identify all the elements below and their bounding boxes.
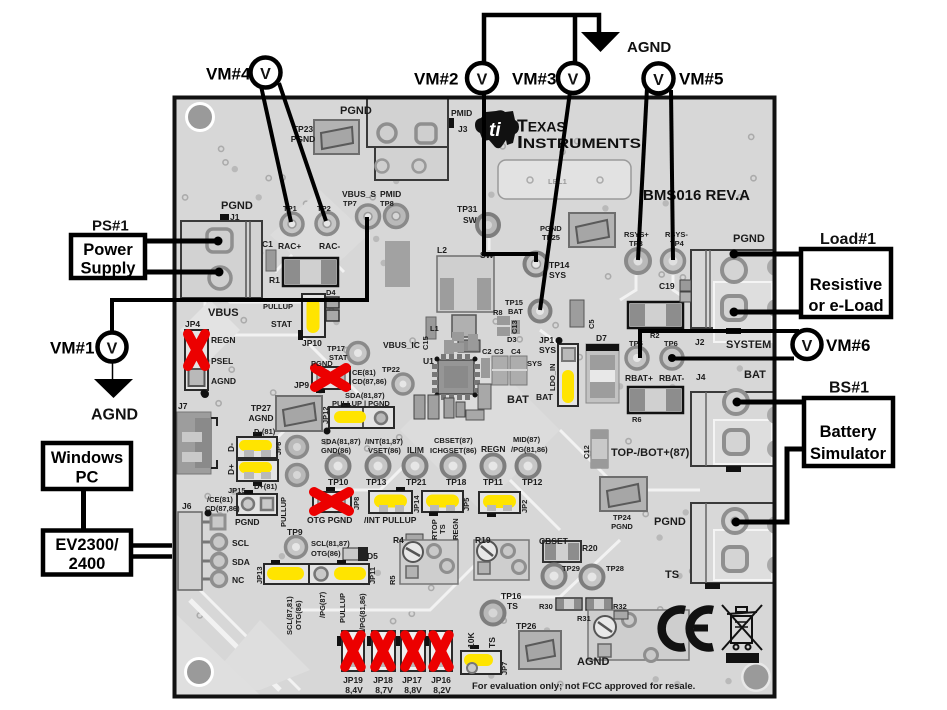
label area LBL1 <box>498 160 631 199</box>
connector J5 TS <box>691 503 776 589</box>
TP13 <box>367 455 390 478</box>
inductor L2 <box>437 256 494 312</box>
svg-text:TP13: TP13 <box>366 477 387 487</box>
svg-text:TS: TS <box>665 569 679 581</box>
svg-text:OTG PGND: OTG PGND <box>307 515 352 525</box>
red X JP16 <box>433 635 449 667</box>
wire PS to J1 pin2 <box>145 270 219 275</box>
TP11 <box>482 455 505 478</box>
jumper JP10 (vertical, yellow) <box>298 294 325 340</box>
svg-text:/PG(81,86): /PG(81,86) <box>358 593 367 630</box>
svg-text:TP14: TP14 <box>549 260 570 270</box>
cap C12 <box>591 430 608 468</box>
wire BS to J4 <box>737 400 805 405</box>
svg-text:INSTRUMENTS: INSTRUMENTS <box>517 132 641 152</box>
wire Load to J2 pin2 <box>734 310 801 315</box>
svg-text:J4: J4 <box>696 372 706 382</box>
jumper JP6 D- <box>237 432 277 458</box>
wire VM#3 stem <box>573 15 578 64</box>
wire VM#4 to TP1 <box>261 86 291 222</box>
WEEE symbol <box>722 605 762 650</box>
svg-text:Windows: Windows <box>51 449 123 467</box>
svg-text:JP18: JP18 <box>373 675 393 685</box>
svg-text:NC: NC <box>232 575 244 585</box>
svg-text:TS: TS <box>507 601 518 611</box>
svg-text:D7: D7 <box>596 333 607 343</box>
svg-text:D+(81): D+(81) <box>254 482 278 491</box>
pushbutton TP24 <box>600 477 647 511</box>
svg-text:VM#5: VM#5 <box>679 70 723 89</box>
TP5 <box>626 347 648 369</box>
svg-text:PULLUP: PULLUP <box>263 302 293 311</box>
svg-text:J7: J7 <box>178 401 188 411</box>
svg-text:Battery: Battery <box>820 423 878 441</box>
svg-text:/INT(81,87): /INT(81,87) <box>365 437 403 446</box>
red X JP19 <box>345 635 361 667</box>
svg-text:JP14: JP14 <box>412 495 421 513</box>
voltmeter VM#1 <box>98 333 127 362</box>
svg-text:CBSET: CBSET <box>539 536 569 546</box>
black bar <box>726 653 759 663</box>
svg-text:AGND: AGND <box>248 413 273 423</box>
inductor L1 + C15 cluster <box>426 315 480 354</box>
svg-text:Resistive: Resistive <box>810 276 882 294</box>
pushbutton TP27 <box>276 396 322 431</box>
jumper JP2 (yellow) <box>479 492 520 517</box>
svg-text:PULLUP: PULLUP <box>279 497 288 527</box>
board border redraw <box>175 98 775 697</box>
jumper JP3 D+ <box>237 460 278 486</box>
svg-text:D-: D- <box>226 443 236 452</box>
resistor R1 <box>283 258 338 286</box>
svg-text:VSET(86): VSET(86) <box>368 446 401 455</box>
svg-text:TP15: TP15 <box>505 298 523 307</box>
TP8 <box>385 205 408 228</box>
svg-text:D5: D5 <box>367 551 378 561</box>
cap C11 <box>478 384 491 409</box>
svg-text:AGND: AGND <box>91 407 138 424</box>
svg-text:PGND: PGND <box>611 522 633 531</box>
wire top bus to AGND <box>484 15 599 64</box>
svg-text:C3: C3 <box>494 347 504 356</box>
TP16 <box>482 602 505 625</box>
svg-text:PGND: PGND <box>311 359 333 368</box>
jumper JP9 (crossed) <box>312 367 350 393</box>
svg-text:JP16: JP16 <box>431 675 451 685</box>
svg-text:SDA(81,87): SDA(81,87) <box>321 437 361 446</box>
svg-text:J6: J6 <box>182 501 192 511</box>
svg-text:BAT: BAT <box>744 369 766 381</box>
svg-text:BMS016 REV.A: BMS016 REV.A <box>643 187 750 204</box>
svg-text:TP29: TP29 <box>562 564 580 573</box>
ground AGND left <box>94 379 133 398</box>
svg-text:TS: TS <box>487 637 497 648</box>
cap C5 <box>570 300 584 327</box>
TP21 <box>404 455 427 478</box>
jumpers JP19 JP18 JP17 JP16 (crossed, vertical) <box>342 631 452 671</box>
svg-text:TP22: TP22 <box>382 365 400 374</box>
connector J2 SYSTEM <box>691 250 776 342</box>
svg-text:TP16: TP16 <box>501 591 522 601</box>
svg-text:R31: R31 <box>577 614 591 623</box>
svg-text:PGND: PGND <box>654 516 686 528</box>
silkscreen labels <box>178 105 771 695</box>
svg-text:Simulator: Simulator <box>810 445 887 463</box>
svg-text:MID(87): MID(87) <box>513 435 541 444</box>
red X JP18 <box>375 635 391 667</box>
svg-text:JP4: JP4 <box>185 319 200 329</box>
svg-text:/PG(87): /PG(87) <box>318 591 327 618</box>
svg-text:VM#3: VM#3 <box>512 70 556 89</box>
svg-text:R20: R20 <box>582 543 598 553</box>
svg-text:L2: L2 <box>437 245 447 255</box>
svg-text:TP26: TP26 <box>516 621 537 631</box>
svg-text:BAT: BAT <box>508 307 523 316</box>
red X JP9 <box>315 368 346 387</box>
svg-text:CD(87,86): CD(87,86) <box>352 377 387 386</box>
connector J7 <box>177 390 217 474</box>
box EV2300/2400 <box>43 531 131 575</box>
svg-text:TP24: TP24 <box>613 513 632 522</box>
wire TP5 to VM#6 <box>640 331 799 358</box>
svg-text:D3: D3 <box>507 335 517 344</box>
svg-text:R32: R32 <box>613 602 627 611</box>
shield block <box>385 241 410 287</box>
wire VM#2 to TP14 <box>484 92 536 262</box>
svg-text:AGND: AGND <box>627 39 671 56</box>
TP18 <box>442 455 465 478</box>
jumper JP12 (wide, yellow left) <box>324 403 395 435</box>
svg-text:TP11: TP11 <box>483 477 503 487</box>
cap C2 <box>481 358 490 378</box>
ground AGND top <box>581 32 620 52</box>
PCB board <box>175 98 775 697</box>
svg-text:JP15: JP15 <box>228 486 246 495</box>
svg-text:VM#2: VM#2 <box>414 70 458 89</box>
svg-text:SCL(81,87): SCL(81,87) <box>311 539 350 548</box>
svg-text:TP6: TP6 <box>664 339 678 348</box>
svg-text:C4: C4 <box>511 347 521 356</box>
TP6 <box>661 347 683 369</box>
caps C3 C4 <box>492 356 527 385</box>
svg-text:JP10: JP10 <box>302 338 322 348</box>
svg-text:AGND: AGND <box>577 656 609 668</box>
pushbutton TP26 <box>519 631 561 669</box>
svg-text:PGND: PGND <box>291 134 316 144</box>
svg-text:REGN: REGN <box>211 335 236 345</box>
svg-text:REGN: REGN <box>451 518 460 540</box>
copper pour / traces <box>190 232 700 690</box>
svg-text:8,4V: 8,4V <box>345 685 363 695</box>
svg-text:C5: C5 <box>587 319 596 329</box>
svg-text:8,8V: 8,8V <box>404 685 422 695</box>
jumper JP1 (vertical, yellow bottom) <box>556 337 579 406</box>
svg-text:JP6: JP6 <box>274 442 283 455</box>
jumper JP14 (yellow) <box>369 487 412 513</box>
box Battery Simulator <box>804 398 893 466</box>
svg-text:JP5: JP5 <box>462 498 471 511</box>
resistors R30 R32 <box>556 598 612 610</box>
svg-text:C13: C13 <box>510 320 519 334</box>
via texture <box>183 134 757 686</box>
svg-text:PULLUP | PGND: PULLUP | PGND <box>332 399 390 408</box>
svg-text:TP18: TP18 <box>446 477 467 487</box>
svg-text:RAC+: RAC+ <box>278 241 301 251</box>
wire TP6 to VM#6 <box>672 357 794 361</box>
TP4 <box>662 250 685 273</box>
svg-text:REGN: REGN <box>481 444 506 454</box>
jumper JP11 (yellow right) <box>309 560 369 584</box>
svg-text:Supply: Supply <box>80 260 136 278</box>
svg-text:JP17: JP17 <box>402 675 422 685</box>
svg-text:/CE(81): /CE(81) <box>207 495 233 504</box>
svg-text:TP28: TP28 <box>606 564 624 573</box>
wire VM#4 to TP2 <box>279 83 326 221</box>
svg-text:V: V <box>802 338 813 355</box>
wire VM#5 to TP3 <box>638 88 647 260</box>
svg-text:JP13: JP13 <box>255 566 264 584</box>
box Resistive or e-Load <box>801 249 891 317</box>
svg-text:TP27: TP27 <box>251 403 272 413</box>
wire Load to J2 pin1 <box>734 252 801 257</box>
jumper JP15 (open) <box>237 490 277 515</box>
svg-text:C12: C12 <box>582 445 591 459</box>
svg-text:L1: L1 <box>430 324 439 333</box>
svg-text:STAT: STAT <box>271 319 293 329</box>
mounting hole top-left <box>185 102 215 132</box>
svg-text:TS: TS <box>438 524 447 534</box>
svg-text:BAT: BAT <box>536 392 554 402</box>
diode D5 <box>343 547 368 561</box>
svg-text:2400: 2400 <box>69 555 106 573</box>
svg-text:VBUS_S: VBUS_S <box>342 189 376 199</box>
svg-text:LDO_IN: LDO_IN <box>548 363 557 391</box>
svg-text:D4: D4 <box>326 288 336 297</box>
cap C14 <box>466 410 484 420</box>
svg-text:D+: D+ <box>226 464 236 475</box>
wire BS to J5 <box>736 449 805 522</box>
caps C7 C8 cluster <box>452 332 478 352</box>
svg-text:SYSTEM: SYSTEM <box>726 339 771 351</box>
svg-text:C2: C2 <box>482 347 492 356</box>
svg-text:TP10: TP10 <box>328 477 349 487</box>
svg-text:V: V <box>107 341 118 358</box>
svg-text:R6: R6 <box>632 415 642 424</box>
svg-text:SYS: SYS <box>527 359 542 368</box>
pushbutton TP25 <box>569 213 615 247</box>
svg-text:SDA: SDA <box>232 557 250 567</box>
svg-text:10K: 10K <box>466 632 476 648</box>
svg-text:J1: J1 <box>230 212 240 222</box>
svg-text:GND(86): GND(86) <box>321 446 352 455</box>
svg-text:J3: J3 <box>458 124 468 134</box>
svg-text:VM#6: VM#6 <box>826 336 870 355</box>
wire VM#1 to TP7 <box>112 217 367 333</box>
svg-text:JP9: JP9 <box>294 380 309 390</box>
svg-text:VM#1: VM#1 <box>50 339 94 358</box>
svg-text:JP7: JP7 <box>500 662 509 675</box>
jumper JP5 (yellow) <box>422 491 463 516</box>
wire VM#5 to TP4 <box>671 90 673 260</box>
trimpot R5 block <box>400 540 458 584</box>
svg-text:For evaluation only; not FCC a: For evaluation only; not FCC approved fo… <box>472 681 695 692</box>
TP3 <box>626 249 650 273</box>
cap C19 <box>680 280 691 302</box>
svg-text:/INT PULLUP: /INT PULLUP <box>364 515 417 525</box>
TP12 <box>517 455 540 478</box>
TP10 <box>327 455 350 478</box>
pad D- <box>287 437 308 458</box>
svg-text:TP7: TP7 <box>343 199 357 208</box>
svg-text:PGND: PGND <box>235 517 260 527</box>
svg-text:SCL: SCL <box>232 538 249 548</box>
svg-text:C19: C19 <box>659 281 675 291</box>
svg-text:JP19: JP19 <box>343 675 363 685</box>
svg-text:SYS: SYS <box>539 345 556 355</box>
link WindowsPC to EV2300 <box>81 488 86 531</box>
red X JP8 <box>314 492 349 511</box>
svg-text:R1: R1 <box>269 275 280 285</box>
diode D7 <box>586 344 619 403</box>
resistor R4 chip <box>406 534 423 543</box>
TP22 <box>393 374 413 394</box>
svg-text:CD(87,86): CD(87,86) <box>205 504 240 513</box>
svg-text:TP9: TP9 <box>287 527 303 537</box>
TP17 <box>348 343 369 364</box>
svg-text:SCL(87,81): SCL(87,81) <box>285 596 294 635</box>
svg-text:V: V <box>477 72 488 89</box>
IC U1 <box>432 354 480 400</box>
voltmeter VM#5 <box>644 63 674 93</box>
svg-text:RAC-: RAC- <box>319 241 340 251</box>
svg-text:ICHGSET(86): ICHGSET(86) <box>430 446 477 455</box>
diode D4 <box>326 297 339 321</box>
svg-text:R19: R19 <box>475 535 491 545</box>
jumper JP13 (yellow) <box>264 560 309 584</box>
svg-text:RSYS-: RSYS- <box>665 230 688 239</box>
svg-text:ti: ti <box>489 120 501 141</box>
test point pads <box>281 205 685 625</box>
wire VM#3 to TP15 <box>540 92 570 310</box>
cap C1 <box>266 250 276 271</box>
svg-text:RBAT+: RBAT+ <box>625 373 653 383</box>
svg-text:VM#4: VM#4 <box>206 65 251 84</box>
TP14 <box>525 253 548 276</box>
svg-text:R30: R30 <box>539 602 553 611</box>
R8 C13 D3 <box>497 316 520 336</box>
svg-text:or e-Load: or e-Load <box>808 297 883 315</box>
connector J4 BAT <box>691 390 776 472</box>
svg-text:J2: J2 <box>695 337 705 347</box>
svg-text:VBUS: VBUS <box>208 307 239 319</box>
jumper JP7 (yellow) <box>461 645 501 674</box>
svg-text:JP12: JP12 <box>321 406 330 424</box>
TP1 <box>281 213 303 235</box>
box Power Supply <box>71 235 145 278</box>
svg-text:PS#1: PS#1 <box>92 218 129 235</box>
svg-text:8,7V: 8,7V <box>375 685 393 695</box>
connector J1 <box>181 214 262 298</box>
svg-text:8,2V: 8,2V <box>433 685 451 695</box>
TP29 <box>543 565 566 588</box>
svg-text:TP12: TP12 <box>522 477 543 487</box>
pushbutton TP23 <box>314 120 359 154</box>
voltmeter VM#4 <box>251 58 281 88</box>
svg-text:JP2: JP2 <box>520 500 529 513</box>
svg-text:TP31: TP31 <box>457 204 478 214</box>
TP7 <box>357 205 380 228</box>
cable EV2300 to J6 <box>130 543 172 548</box>
svg-text:C15: C15 <box>421 336 430 350</box>
svg-text:/PG(81,86): /PG(81,86) <box>511 445 548 454</box>
jumper JP4 (crossed, vertical) <box>185 330 208 397</box>
voltmeter VM#2 <box>467 63 497 93</box>
trimpot R19 block <box>474 540 529 580</box>
svg-text:PGND: PGND <box>733 233 765 245</box>
svg-text:SYS: SYS <box>549 270 566 280</box>
svg-text:PSEL: PSEL <box>211 356 233 366</box>
svg-text:Load#1: Load#1 <box>820 231 876 248</box>
Texas Instruments wordmark <box>517 116 641 153</box>
wire PS to J1 pin1 <box>145 239 218 244</box>
svg-text:SW: SW <box>463 215 478 225</box>
TP28 <box>581 566 604 589</box>
mounting hole bottom-left <box>184 657 214 687</box>
voltmeter VM#3 <box>558 63 588 93</box>
svg-text:PGND: PGND <box>340 105 372 117</box>
svg-text:JP8: JP8 <box>352 497 361 510</box>
red X JP4 <box>188 334 205 366</box>
svg-text:R4: R4 <box>393 535 404 545</box>
svg-text:TP17: TP17 <box>327 344 345 353</box>
svg-text:JP1: JP1 <box>539 335 554 345</box>
svg-text:PMID: PMID <box>380 189 401 199</box>
svg-text:RBAT-: RBAT- <box>659 373 685 383</box>
svg-text:VBUS_IC: VBUS_IC <box>383 340 420 350</box>
svg-text:R5: R5 <box>388 575 397 585</box>
resistor R2 <box>628 302 683 328</box>
svg-text:EV2300/: EV2300/ <box>55 536 119 554</box>
TI logo <box>475 110 519 148</box>
TP15 <box>530 301 551 322</box>
svg-text:BAT: BAT <box>507 394 529 406</box>
svg-text:C1: C1 <box>262 239 273 249</box>
svg-text:CE(81): CE(81) <box>352 368 376 377</box>
resistors R14 R12 R3 R33 <box>414 395 465 419</box>
svg-text:PMID: PMID <box>451 108 472 118</box>
TP9 <box>286 537 307 558</box>
pad D+ <box>287 465 308 486</box>
red X JP17 <box>405 635 421 667</box>
jumper JP8 (crossed) <box>313 487 351 512</box>
resistor R20 <box>543 541 581 562</box>
svg-text:OTG(86): OTG(86) <box>311 549 341 558</box>
connector J3 top <box>367 98 454 180</box>
svg-text:AGND: AGND <box>211 376 236 386</box>
voltmeter VM#6 <box>793 330 822 359</box>
svg-text:CBSET(87): CBSET(87) <box>434 436 473 445</box>
resistor R6 <box>628 387 683 413</box>
TP31 <box>477 214 499 236</box>
svg-text:BS#1: BS#1 <box>829 380 869 397</box>
svg-text:ILIM: ILIM <box>407 445 424 455</box>
svg-text:JP11: JP11 <box>368 567 377 584</box>
svg-text:TP8: TP8 <box>380 199 394 208</box>
svg-text:R8: R8 <box>493 308 503 317</box>
svg-text:RSYS+: RSYS+ <box>624 230 649 239</box>
VM#1 ground stem <box>112 361 114 379</box>
TP2 <box>316 213 338 235</box>
